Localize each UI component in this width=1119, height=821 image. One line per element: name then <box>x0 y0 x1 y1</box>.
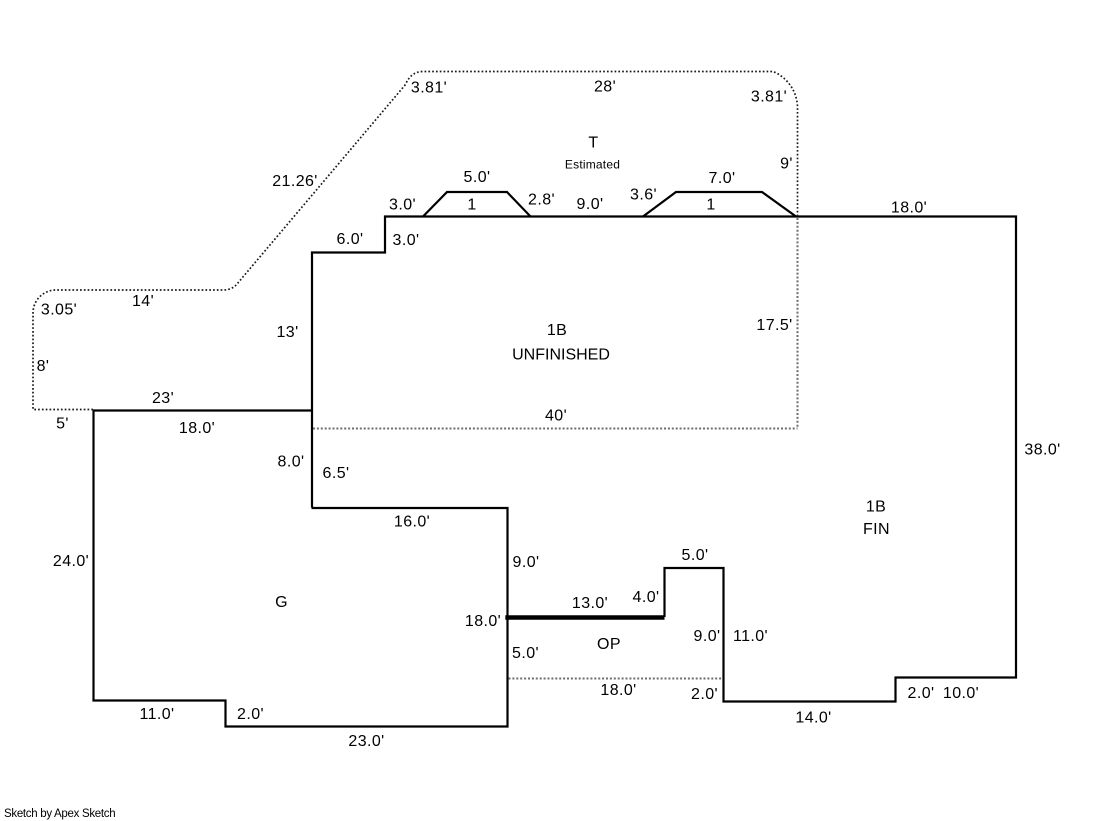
svg-text:1B: 1B <box>866 499 886 516</box>
svg-text:28': 28' <box>594 79 616 96</box>
svg-text:9': 9' <box>780 156 793 173</box>
svg-text:21.26': 21.26' <box>272 173 318 190</box>
svg-text:38.0': 38.0' <box>1024 442 1060 459</box>
svg-text:4.0': 4.0' <box>633 589 660 606</box>
svg-text:18.0': 18.0' <box>891 200 927 217</box>
svg-text:Estimated: Estimated <box>565 157 620 171</box>
svg-text:2.8': 2.8' <box>528 192 555 209</box>
svg-text:5': 5' <box>56 416 69 433</box>
svg-text:2.0': 2.0' <box>237 706 264 723</box>
svg-text:7.0': 7.0' <box>709 170 736 187</box>
svg-text:14': 14' <box>132 293 154 310</box>
svg-text:16.0': 16.0' <box>394 514 430 531</box>
svg-text:40': 40' <box>545 408 567 425</box>
svg-text:OP: OP <box>597 636 621 653</box>
svg-text:5.0': 5.0' <box>682 547 709 564</box>
svg-text:5.0': 5.0' <box>512 645 539 662</box>
svg-text:3.0': 3.0' <box>389 197 416 214</box>
svg-text:9.0': 9.0' <box>577 196 604 213</box>
svg-text:24.0': 24.0' <box>53 553 89 570</box>
svg-text:9.0': 9.0' <box>513 554 540 571</box>
svg-text:11.0': 11.0' <box>733 628 768 645</box>
svg-text:1: 1 <box>706 197 715 214</box>
svg-text:3.81': 3.81' <box>411 80 447 97</box>
svg-text:UNFINISHED: UNFINISHED <box>512 347 610 364</box>
svg-text:3.6': 3.6' <box>630 187 657 204</box>
svg-text:10.0': 10.0' <box>943 685 979 702</box>
svg-text:13': 13' <box>276 324 298 341</box>
svg-text:23.0': 23.0' <box>348 733 384 750</box>
svg-text:5.0': 5.0' <box>464 169 491 186</box>
svg-text:T: T <box>588 135 598 152</box>
svg-text:11.0': 11.0' <box>139 706 174 723</box>
svg-text:3.05': 3.05' <box>41 302 77 319</box>
svg-text:13.0': 13.0' <box>572 595 608 612</box>
svg-text:14.0': 14.0' <box>795 710 831 727</box>
svg-text:17.5': 17.5' <box>756 317 792 334</box>
svg-text:1B: 1B <box>547 322 567 339</box>
svg-text:Sketch by Apex Sketch: Sketch by Apex Sketch <box>4 808 115 820</box>
svg-text:6.0': 6.0' <box>337 231 364 248</box>
svg-text:23': 23' <box>152 390 174 407</box>
svg-text:9.0': 9.0' <box>694 628 721 645</box>
svg-text:8': 8' <box>37 358 50 375</box>
svg-text:2.0': 2.0' <box>691 686 718 703</box>
svg-text:18.0': 18.0' <box>465 613 501 630</box>
svg-text:8.0': 8.0' <box>278 454 305 471</box>
svg-text:FIN: FIN <box>863 521 890 538</box>
svg-text:6.5': 6.5' <box>323 465 350 482</box>
svg-text:3.81': 3.81' <box>751 89 787 106</box>
svg-text:3.0': 3.0' <box>393 232 420 249</box>
svg-text:18.0': 18.0' <box>179 420 215 437</box>
svg-text:1: 1 <box>467 197 476 214</box>
svg-text:18.0': 18.0' <box>600 682 636 699</box>
svg-text:G: G <box>275 594 288 611</box>
svg-text:2.0': 2.0' <box>908 685 935 702</box>
